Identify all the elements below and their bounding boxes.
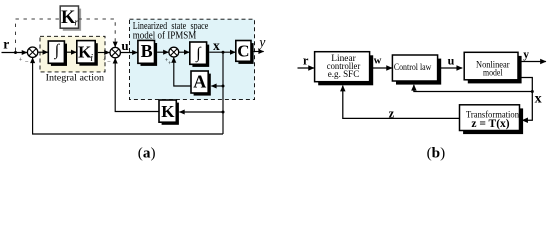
gain C block xyxy=(236,41,254,64)
IPMSM linearized model dashed cyan box xyxy=(130,19,255,99)
junction dot K input xyxy=(222,111,225,114)
svg-text:x: x xyxy=(213,38,220,53)
svg-text:+: + xyxy=(103,56,107,63)
wire integrator2 to C xyxy=(209,51,235,53)
wire dashed from Kr to sum2 xyxy=(79,19,116,44)
svg-text:+: + xyxy=(19,56,23,63)
svg-text:z = T(x): z = T(x) xyxy=(471,118,509,130)
integrator block 1 xyxy=(48,41,67,66)
wire r input xyxy=(2,52,28,54)
wire C to y output xyxy=(254,51,264,53)
svg-text:K: K xyxy=(161,102,175,121)
wire dashed to Kr block xyxy=(16,18,61,20)
wire sum3 to integrator 2 xyxy=(179,51,190,53)
svg-text:Integral action: Integral action xyxy=(46,72,105,83)
svg-text:A: A xyxy=(193,72,206,92)
wire x feedback vertical xyxy=(222,52,224,134)
svg-text:B: B xyxy=(141,41,153,61)
svg-text:model: model xyxy=(483,69,503,79)
svg-text:r: r xyxy=(303,53,309,67)
wire sum2 to B xyxy=(120,52,137,54)
svg-text:u: u xyxy=(121,38,128,53)
svg-text:+: + xyxy=(168,60,172,67)
wire Ki to sum2 xyxy=(98,52,110,54)
svg-text:(b): (b) xyxy=(427,145,446,162)
junction dot on r line xyxy=(14,51,17,54)
gain A block xyxy=(191,71,211,96)
wire A to sum3 bottom xyxy=(174,57,191,86)
transformation box xyxy=(460,105,524,134)
svg-text:r: r xyxy=(74,17,78,28)
linear controller box xyxy=(315,52,374,86)
junction dot x feedback xyxy=(531,90,534,93)
svg-text:−: − xyxy=(25,59,29,66)
junction dot x xyxy=(222,51,225,54)
integrator block 2 xyxy=(190,42,209,67)
wire w xyxy=(370,67,392,69)
svg-text:w: w xyxy=(374,55,382,66)
svg-text:z: z xyxy=(389,107,395,121)
wire bottom feedback to sum1 xyxy=(33,58,223,134)
svg-text:r: r xyxy=(3,36,9,51)
control law box xyxy=(392,55,441,85)
svg-text:(a): (a) xyxy=(138,145,156,162)
summing junction 2 xyxy=(103,47,121,65)
wire into A xyxy=(211,85,223,87)
svg-text:u: u xyxy=(448,53,455,67)
wire x output down xyxy=(518,78,532,121)
svg-text:C: C xyxy=(237,42,249,61)
wire u b xyxy=(438,67,463,69)
svg-text:x: x xyxy=(535,91,542,106)
arrow into sum2 top xyxy=(114,43,116,47)
nonlinear model box xyxy=(464,52,521,83)
wire K to sum2 bottom xyxy=(115,58,159,111)
svg-text:−: − xyxy=(107,58,111,65)
svg-text:Control law: Control law xyxy=(394,63,432,73)
svg-text:y: y xyxy=(523,49,529,61)
wire B to sum3 xyxy=(157,51,168,53)
wire r input b xyxy=(298,67,315,69)
wire y output b xyxy=(518,61,546,63)
svg-text:i: i xyxy=(90,53,93,64)
svg-text:e.g. SFC: e.g. SFC xyxy=(328,70,360,80)
wire sum1 to integrator xyxy=(38,51,48,53)
wire z feedback xyxy=(343,86,460,119)
summing junction 1 xyxy=(19,47,38,66)
wire dashed feedforward up from r xyxy=(15,19,17,51)
gain B block xyxy=(138,40,157,66)
wire into K xyxy=(179,111,223,113)
integral action dashed yellow box xyxy=(40,36,105,72)
wire integrator to Ki xyxy=(67,51,76,53)
gain Ki block xyxy=(77,41,98,66)
gain Kr block xyxy=(60,6,81,31)
gain K block xyxy=(159,100,179,125)
junction dot A input xyxy=(222,85,225,88)
wire x to control law xyxy=(414,85,532,92)
summing junction 3 xyxy=(165,47,179,67)
svg-text:y: y xyxy=(257,35,265,50)
